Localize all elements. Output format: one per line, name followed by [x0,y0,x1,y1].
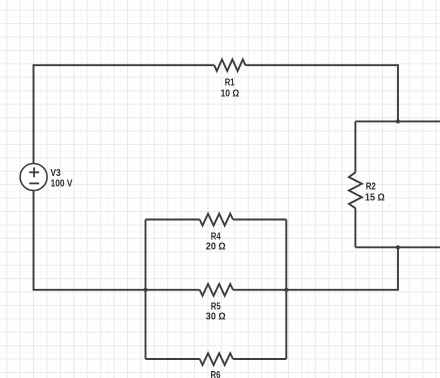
svg-text:V3: V3 [51,168,61,179]
wire parallel box right side [285,220,287,360]
resistor R2 [349,172,362,208]
resistor R1 [214,59,245,71]
wire parallel box left side [145,220,147,360]
node junction top right [396,119,400,123]
node junction left R5 [143,288,147,292]
wire top left-to-R1 [34,65,215,163]
resistor R4 [200,214,233,226]
wire node row y121 to right edge [355,120,440,122]
wire R2 bottom lead [354,208,356,247]
svg-text:30 Ω: 30 Ω [206,312,226,323]
wire R1-to-top-right corner [245,65,398,121]
resistor R6 [200,353,233,365]
svg-text:100 V: 100 V [51,178,73,189]
resistor R5 [200,284,233,296]
svg-text:20 Ω: 20 Ω [206,242,226,253]
wire R5 right to x398 riser [233,247,398,289]
wire V3 bottom to R5 row [34,190,200,289]
wire node row y247 to right edge [355,246,440,248]
node junction bottom right [396,245,400,249]
node junction right R5 [284,288,288,292]
wire R4 row right lead [233,219,286,221]
voltage source V3 [20,164,47,191]
wire R4 row left lead [146,219,200,221]
wire R2 top lead [354,121,356,172]
wire R6 row left lead [146,358,200,360]
svg-text:15 Ω: 15 Ω [365,193,385,204]
svg-text:R2: R2 [366,182,376,193]
svg-text:10 Ω: 10 Ω [221,88,240,99]
wire R6 row right lead [233,358,286,360]
svg-text:R6: R6 [211,370,221,378]
svg-text:R1: R1 [225,77,235,88]
